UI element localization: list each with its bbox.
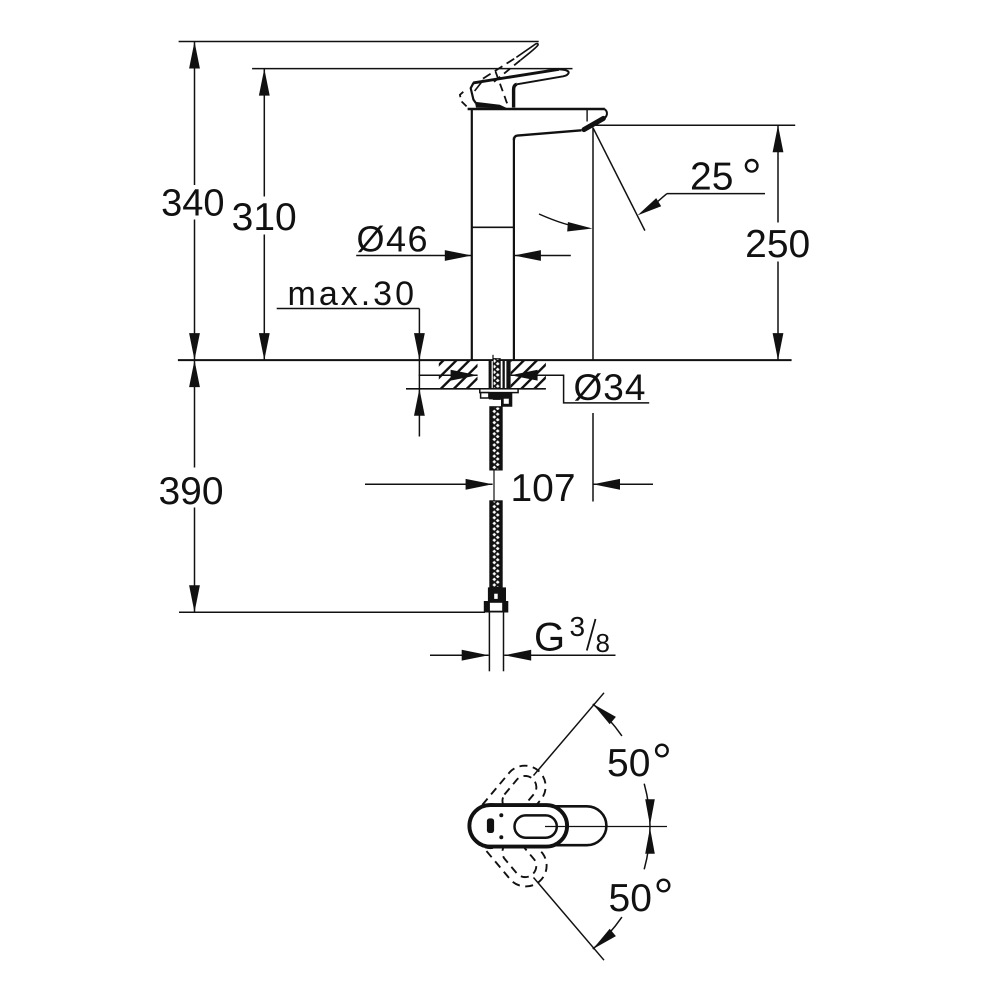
dimension 390 xyxy=(194,360,196,467)
supply pipe left wall xyxy=(488,612,490,672)
svg-text:8: 8 xyxy=(596,628,610,658)
aerator face line xyxy=(586,110,588,122)
25 degree leader xyxy=(667,193,765,195)
dimension 250 xyxy=(777,125,779,222)
dimension G 3/8 xyxy=(430,654,489,656)
deck section hatching right xyxy=(337,358,591,391)
raised lever tip (solid thin) xyxy=(516,44,538,61)
dimension Ø34 xyxy=(419,374,478,376)
lever arm front xyxy=(514,84,517,107)
250 extension line xyxy=(595,124,796,126)
svg-text:310: 310 xyxy=(232,196,297,239)
threaded stud xyxy=(493,359,500,400)
deck section hatching left xyxy=(335,358,589,391)
lever rotated -50 (dashed) xyxy=(462,796,555,895)
hose ferrule xyxy=(488,587,506,602)
braided hose upper xyxy=(490,407,502,470)
svg-text:340: 340 xyxy=(161,182,224,224)
lever knuckle inner line xyxy=(475,82,482,91)
raised lever knuckle (dashed) xyxy=(460,92,468,108)
upper 50-degree line xyxy=(534,693,605,776)
svg-text:50: 50 xyxy=(607,742,650,785)
svg-text:25: 25 xyxy=(690,155,733,198)
svg-text:Ø46: Ø46 xyxy=(357,219,430,260)
340 extension line xyxy=(179,41,539,43)
lever (top view) xyxy=(469,805,567,847)
fixing nut body xyxy=(489,393,512,407)
stream direction curved arrow xyxy=(539,214,585,228)
lever loop hole (top view) xyxy=(515,815,557,837)
lever dot lower xyxy=(499,835,503,839)
faucet body right edge xyxy=(513,138,515,361)
aerator tip band xyxy=(584,118,603,129)
lever rotated +50 (dashed) xyxy=(461,757,554,856)
svg-text:max.30: max.30 xyxy=(288,275,418,313)
spout tip chamfer xyxy=(604,109,607,118)
lever front mark xyxy=(487,818,494,833)
hose connection nut xyxy=(485,602,508,612)
upper 50-degree arc xyxy=(593,704,622,736)
svg-text:G: G xyxy=(534,615,565,659)
310 extension line xyxy=(252,68,572,70)
washer below deck xyxy=(480,389,518,393)
braided hose lower xyxy=(490,501,502,588)
lower 50-degree arc xyxy=(644,827,650,870)
shank left wall xyxy=(489,360,492,389)
lever knuckle outline xyxy=(471,83,476,103)
countertop deck line xyxy=(178,359,792,361)
faucet body joint line xyxy=(471,226,515,228)
raised lever bottom edge (dashed) xyxy=(494,60,520,82)
svg-text:390: 390 xyxy=(158,470,223,513)
dimension 310 xyxy=(263,69,265,197)
faucet body top edge xyxy=(468,108,605,110)
spout tip projection line xyxy=(592,127,594,360)
faucet body left edge xyxy=(471,108,473,360)
hose centerline gap xyxy=(493,470,495,501)
fixing nut left part xyxy=(481,393,489,398)
svg-text:50: 50 xyxy=(609,877,652,920)
lever top edge xyxy=(473,69,559,83)
water stream line xyxy=(593,128,645,230)
raised lever front edge (dashed) xyxy=(496,72,508,104)
shank hole clearance (white) xyxy=(478,361,511,388)
dimension 107 xyxy=(365,483,493,485)
stud top tick xyxy=(492,355,494,360)
svg-text:107: 107 xyxy=(510,467,575,510)
svg-text:250: 250 xyxy=(745,223,810,266)
supply pipe right wall xyxy=(503,612,505,672)
spout underside line xyxy=(514,130,582,140)
svg-text:3: 3 xyxy=(570,611,586,642)
fixing nut notch xyxy=(504,399,509,404)
shank inner wall xyxy=(503,360,505,389)
390 extension line xyxy=(179,611,485,613)
lever knuckle base wedge xyxy=(475,102,508,109)
svg-text:Ø34: Ø34 xyxy=(574,367,647,408)
lower 50-degree line xyxy=(534,878,605,961)
dimension 340 xyxy=(194,42,196,186)
lever tip hook xyxy=(517,69,569,84)
deck bottom line xyxy=(406,388,546,390)
raised lever knuckle link (dashed) xyxy=(480,80,484,82)
bottom view centerline xyxy=(545,826,667,828)
shank right wall xyxy=(506,360,510,389)
raised lever top edge (dashed) xyxy=(483,57,516,78)
handle base cap (top view) xyxy=(500,806,606,845)
lever dot upper xyxy=(499,813,503,817)
